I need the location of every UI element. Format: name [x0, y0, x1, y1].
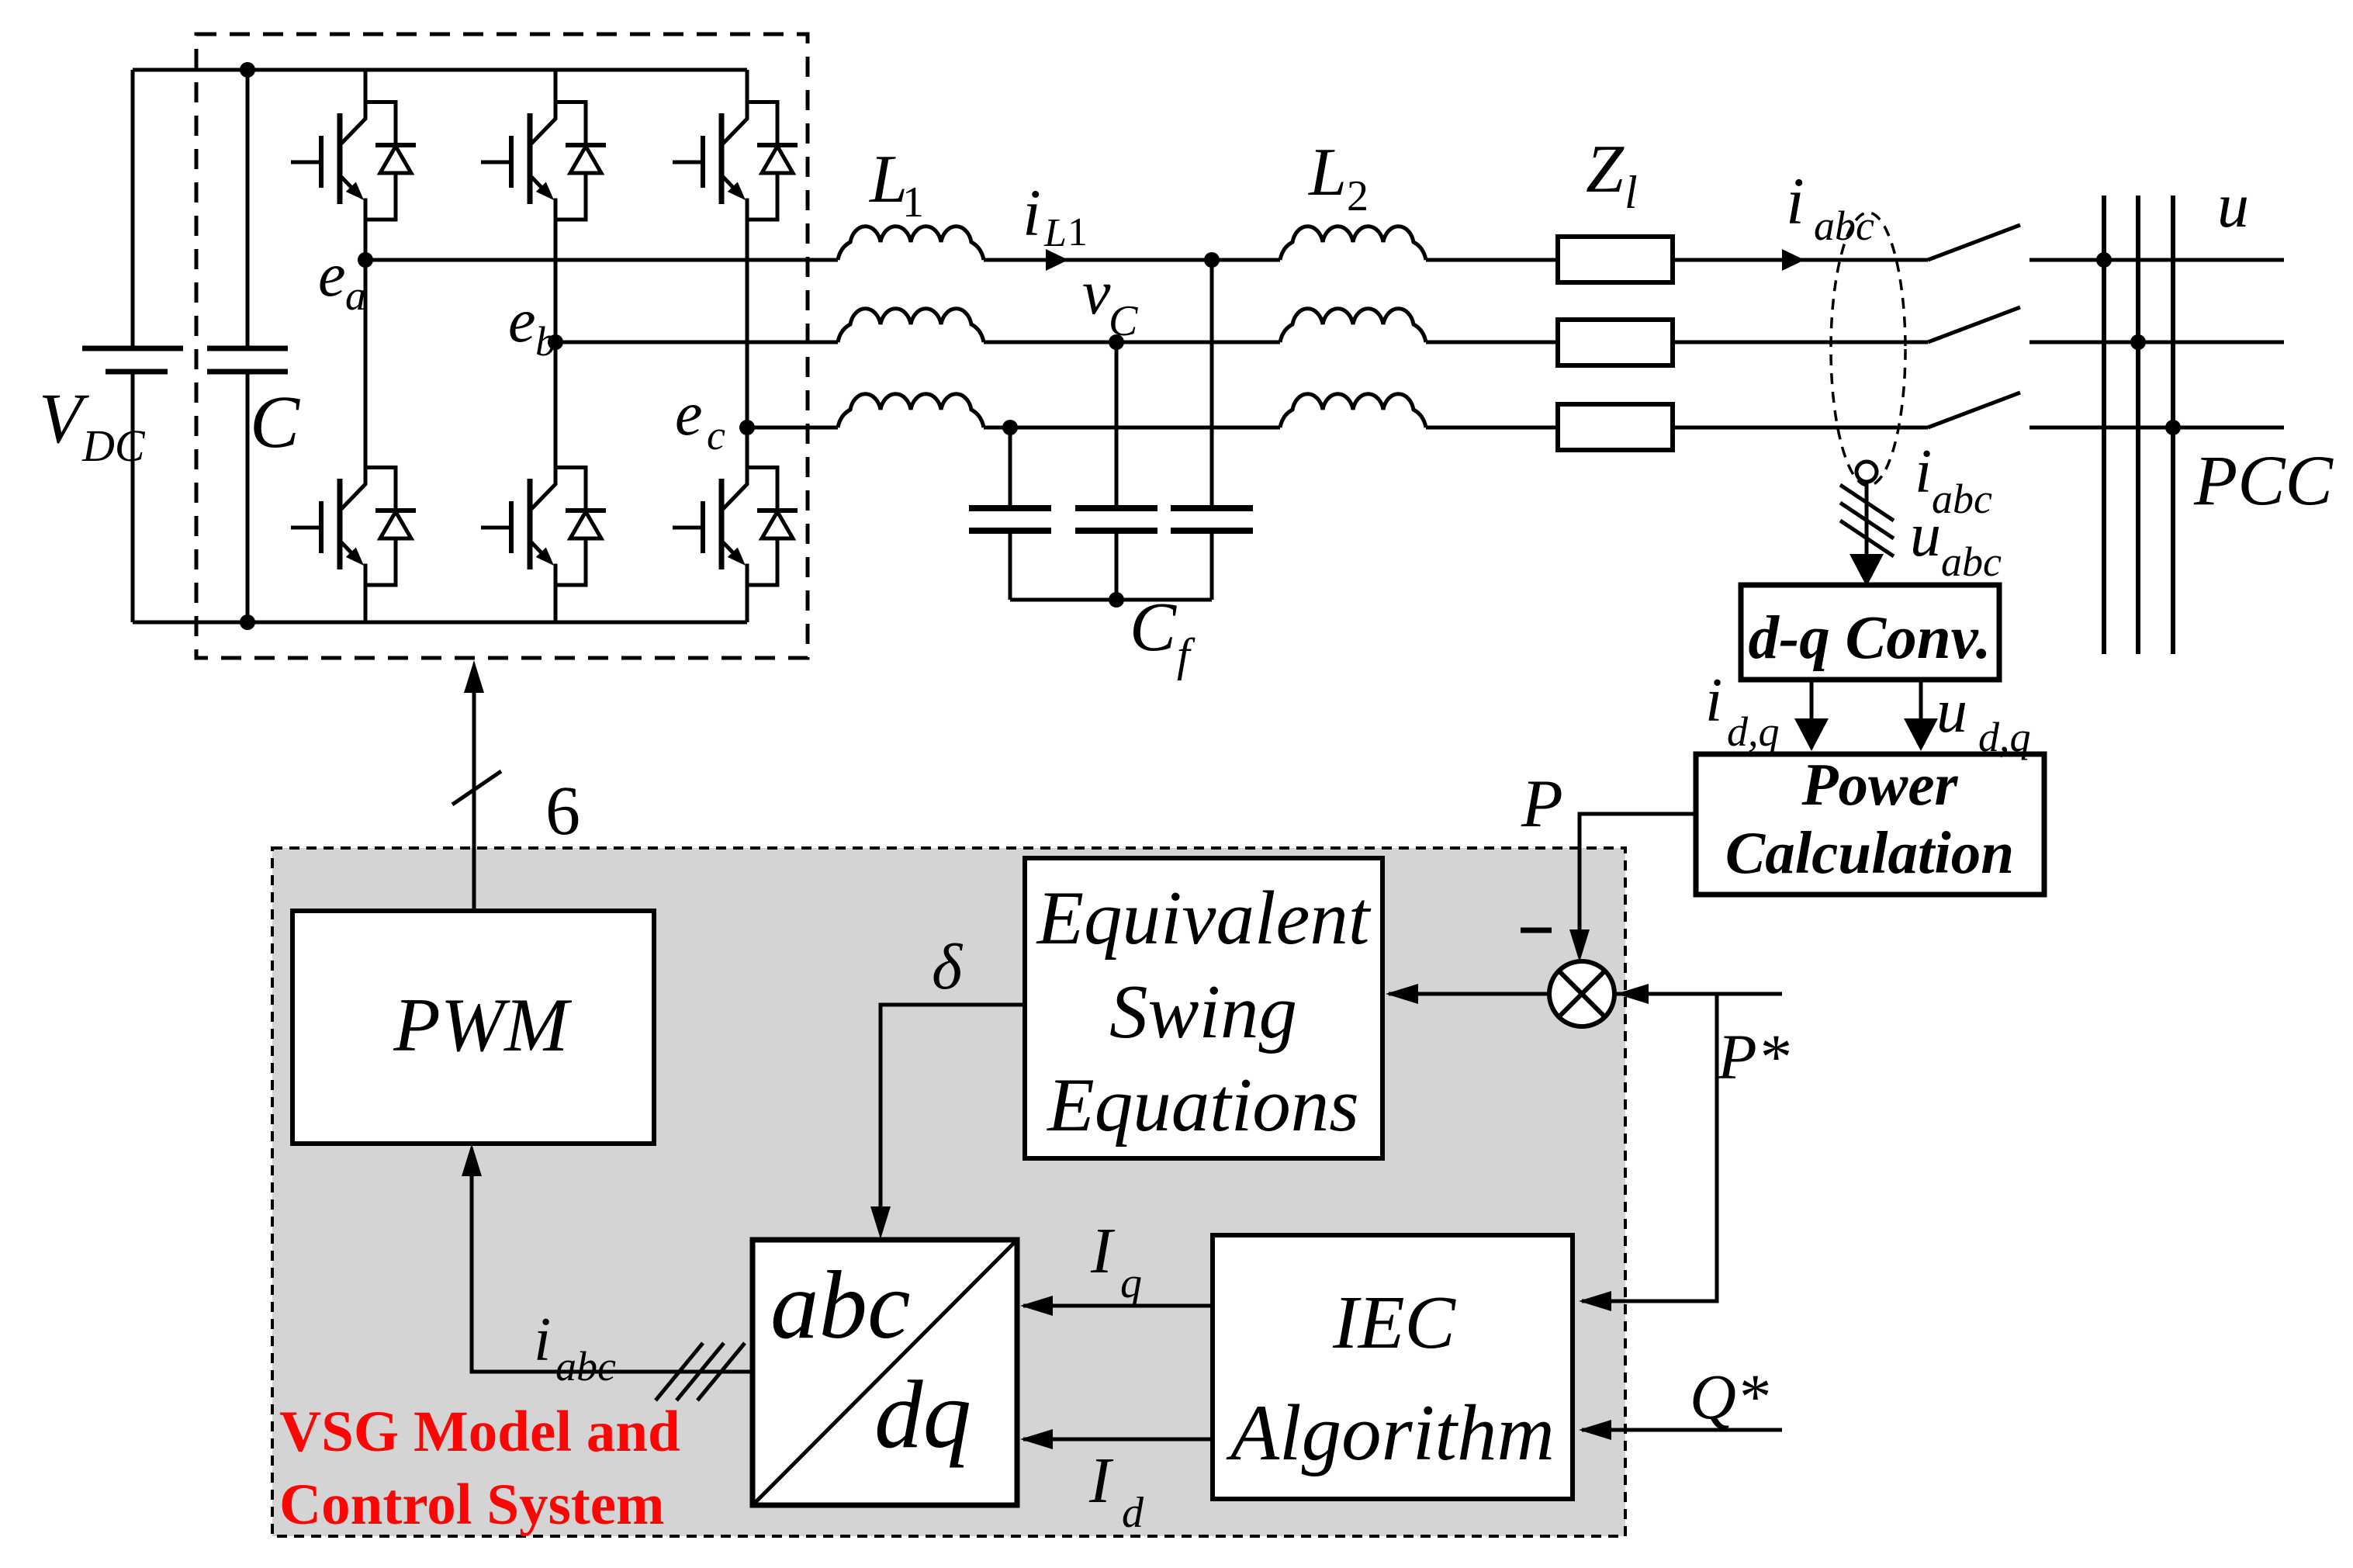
wire: phase C L1 to L2	[984, 426, 1280, 430]
wire junction to ESE	[1389, 992, 1551, 996]
wire: phase C L2 to Zl	[1426, 426, 1558, 430]
svg-text:Control System: Control System	[279, 1473, 665, 1537]
svg-text:c: c	[707, 412, 725, 459]
svg-text:Equivalent: Equivalent	[1036, 876, 1372, 961]
inductor L1 phase B	[838, 309, 984, 342]
capacitor C plates	[207, 346, 288, 351]
node eb	[548, 334, 563, 350]
svg-text:v: v	[1082, 257, 1111, 327]
svg-text:i: i	[1915, 438, 1932, 506]
breaker phase B	[1928, 307, 2020, 342]
CT dashed ellipse	[1831, 213, 1905, 486]
node phase A / bus1	[2096, 252, 2112, 268]
node ea	[358, 252, 373, 268]
IGBT Q5 (phase C upper)	[673, 101, 798, 222]
wire Iq	[1023, 1304, 1213, 1308]
svg-text:DC: DC	[81, 421, 146, 471]
inductor L2 phase A	[1280, 227, 1426, 260]
wire delta	[881, 1005, 1025, 1215]
minus sign	[1521, 928, 1552, 933]
svg-text:u: u	[2217, 170, 2249, 241]
arrow dq to Power left	[1810, 680, 1814, 727]
measurement arrow down	[1865, 482, 1869, 562]
PCC bus bar 1	[2102, 196, 2106, 654]
svg-text:e: e	[508, 287, 536, 355]
inductor L2 phase C	[1280, 394, 1426, 427]
svg-text:Z: Z	[1586, 132, 1625, 207]
svg-text:abc: abc	[1814, 202, 1874, 249]
summing junction	[1549, 961, 1614, 1026]
node phase A / Cf3	[1204, 252, 1220, 268]
filter capacitor Cf3 leads	[1210, 260, 1214, 600]
wire P* input	[1616, 992, 1782, 996]
wire PWM to inverter	[472, 686, 476, 911]
impedance Zl phase C	[1558, 404, 1673, 450]
svg-text:l: l	[1625, 167, 1638, 218]
svg-text:C: C	[250, 380, 300, 463]
svg-text:Algorithm: Algorithm	[1226, 1389, 1555, 1477]
arrow dq to Power right	[1919, 680, 1923, 727]
PCC bus bar 3	[2171, 196, 2175, 654]
impedance Zl phase B	[1558, 320, 1673, 365]
svg-text:Equations: Equations	[1046, 1063, 1359, 1147]
IGBT Q3 (phase B upper)	[481, 101, 606, 222]
VSG control system gray dashed box	[272, 848, 1625, 1536]
IGBT Q2 (phase A lower)	[291, 466, 416, 587]
Power Calculation box	[1696, 754, 2044, 895]
svg-text:u: u	[1910, 501, 1941, 569]
svg-text:d: d	[1122, 1489, 1144, 1537]
svg-text:I: I	[1090, 1215, 1116, 1287]
PCC bus bar 2	[2136, 196, 2140, 654]
wire: leg B segments	[554, 70, 558, 622]
wire P	[1580, 814, 1696, 953]
IGBT Q6 (phase C lower)	[673, 466, 798, 587]
inductor L1 phase C	[838, 394, 984, 427]
wire: phase A out	[365, 258, 838, 262]
wire: phase B Zl to breaker	[1673, 341, 1928, 344]
node phase C / Cf1	[1002, 420, 1018, 435]
filter capacitor Cf3	[1171, 508, 1253, 531]
svg-text:P: P	[1521, 767, 1563, 842]
wire Q*	[1582, 1428, 1782, 1432]
svg-text:1: 1	[1068, 210, 1088, 254]
svg-text:2: 2	[1347, 172, 1369, 220]
wire: phase C Zl to breaker	[1673, 426, 1928, 430]
svg-text:L: L	[1307, 135, 1347, 210]
svg-text:e: e	[675, 380, 703, 448]
Equivalent Swing Equations box	[1025, 858, 1382, 1158]
node phase B / bus2	[2130, 334, 2146, 350]
d-q Conv. box	[1741, 585, 1999, 680]
svg-text:abc: abc	[555, 1343, 616, 1390]
svg-text:dq: dq	[874, 1362, 971, 1469]
svg-text:P*: P*	[1717, 1021, 1790, 1092]
svg-text:C: C	[1130, 589, 1177, 666]
wire iabc feedback	[472, 1168, 753, 1372]
IGBT Q4 (phase B lower)	[481, 466, 606, 587]
arrow iL1	[1046, 249, 1068, 271]
wire P* down to IEC	[1582, 994, 1717, 1301]
svg-text:e: e	[318, 241, 346, 310]
wire: leg A segments	[364, 70, 368, 622]
node ec	[739, 420, 755, 435]
wire: phase C out	[747, 426, 838, 430]
svg-text:L: L	[1043, 211, 1067, 255]
wire: phase A bus stub	[2029, 258, 2284, 262]
wire: phase B L2 to Zl	[1426, 341, 1558, 344]
wire: leg C segments	[746, 70, 749, 622]
svg-text:VSG Model and: VSG Model and	[279, 1400, 680, 1464]
measurement slashes	[1840, 485, 1894, 556]
battery VDC left lead	[131, 70, 135, 622]
svg-text:Q*: Q*	[1690, 1361, 1769, 1432]
filter capacitor Cf1 leads	[1009, 427, 1012, 600]
arrow iabc	[1782, 249, 1805, 271]
wire: phase B L1 to L2	[984, 341, 1280, 344]
svg-text:abc: abc	[770, 1252, 910, 1359]
svg-text:d-q Conv.: d-q Conv.	[1748, 604, 1991, 672]
wire: DC bottom rail	[133, 621, 747, 625]
wire: phase A L2 to Zl	[1426, 258, 1558, 262]
svg-text:q: q	[1120, 1259, 1142, 1307]
slashes iabc feedback	[656, 1343, 745, 1400]
svg-text:C: C	[1109, 297, 1138, 345]
wire: phase A Zl to breaker	[1673, 258, 1928, 262]
svg-text:Power: Power	[1801, 751, 1958, 818]
PWM box	[292, 911, 654, 1144]
IGBT Q1 (phase A upper)	[291, 101, 416, 222]
wire: DC top rail	[133, 68, 747, 72]
svg-text:1: 1	[902, 178, 924, 227]
svg-text:abc: abc	[1941, 538, 2002, 585]
svg-text:i: i	[534, 1306, 551, 1374]
svg-text:PCC: PCC	[2193, 441, 2334, 520]
svg-text:6: 6	[545, 773, 580, 850]
node: bottom rail / C	[240, 614, 255, 630]
breaker phase C	[1928, 393, 2020, 427]
inductor L2 phase B	[1280, 309, 1426, 342]
wire: phase B bus stub	[2029, 341, 2284, 344]
svg-text:a: a	[345, 272, 366, 319]
impedance Zl phase A	[1558, 237, 1673, 282]
svg-text:b: b	[535, 318, 556, 365]
inverter dashed box	[196, 34, 808, 658]
wire: phase B out	[555, 341, 838, 344]
node phase C / bus3	[2165, 420, 2181, 435]
abc/dq box	[753, 1240, 1017, 1505]
svg-text:I: I	[1088, 1445, 1114, 1517]
node phase B / Cf2 (vC)	[1109, 334, 1124, 350]
filter capacitor Cf2	[1075, 508, 1157, 531]
IEC Algorithm box	[1213, 1235, 1573, 1499]
svg-text:Swing: Swing	[1109, 970, 1297, 1054]
svg-text:u: u	[1936, 677, 1967, 746]
svg-text:i: i	[1705, 666, 1722, 735]
filter capacitor Cf2 leads	[1115, 342, 1119, 600]
wire: phase A L1 to L2	[984, 258, 1280, 262]
filter capacitor Cf1	[969, 508, 1051, 531]
svg-text:i: i	[1023, 175, 1041, 250]
svg-text:i: i	[1786, 164, 1805, 238]
abc/dq diagonal	[753, 1240, 1017, 1505]
wire: phase C bus stub	[2029, 426, 2284, 430]
inductor L1 phase A	[838, 227, 984, 260]
slash on PWM wire	[452, 771, 501, 805]
svg-text:d,q: d,q	[1727, 708, 1780, 755]
measurement tap circle	[1856, 462, 1877, 482]
wire: Cf common bus	[1010, 598, 1212, 602]
svg-text:δ: δ	[932, 931, 964, 1003]
svg-text:IEC: IEC	[1332, 1281, 1456, 1365]
wire Id	[1023, 1438, 1213, 1442]
breaker phase A	[1928, 225, 2020, 260]
battery VDC plates	[82, 346, 183, 351]
svg-text:Calculation: Calculation	[1725, 819, 2014, 886]
svg-text:PWM: PWM	[393, 983, 573, 1068]
capacitor C leads	[246, 70, 250, 622]
node Cf bus	[1109, 592, 1124, 607]
node: top rail / C	[240, 62, 255, 78]
